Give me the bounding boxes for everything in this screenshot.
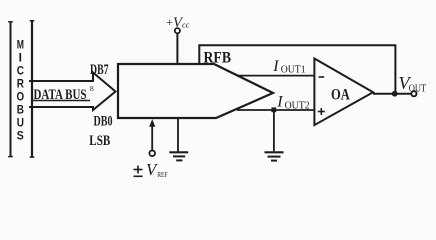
svg-text:cc: cc [182,20,190,30]
svg-text:DATA BUS: DATA BUS [34,87,87,103]
svg-text:8: 8 [90,84,94,93]
svg-text:LSB: LSB [89,133,110,149]
svg-text:I: I [19,51,22,65]
svg-text:C: C [17,64,24,78]
svg-text:OA: OA [331,86,350,103]
svg-text:B: B [17,103,24,117]
svg-text:OUT: OUT [409,84,426,95]
svg-text:O: O [17,90,25,104]
svg-text:DB0: DB0 [94,113,113,129]
svg-text:OUT1: OUT1 [281,65,306,76]
svg-text:OUT2: OUT2 [285,101,310,112]
svg-text:DB7: DB7 [90,62,109,78]
svg-text:U: U [17,116,24,130]
svg-text:I: I [276,94,283,111]
svg-text:M: M [17,38,24,52]
svg-text:R: R [17,77,24,91]
svg-text:I: I [272,58,279,75]
svg-text:S: S [17,129,24,143]
svg-text:REF: REF [157,170,168,179]
svg-text:RFB: RFB [204,50,232,67]
svg-text:+: + [166,15,173,29]
